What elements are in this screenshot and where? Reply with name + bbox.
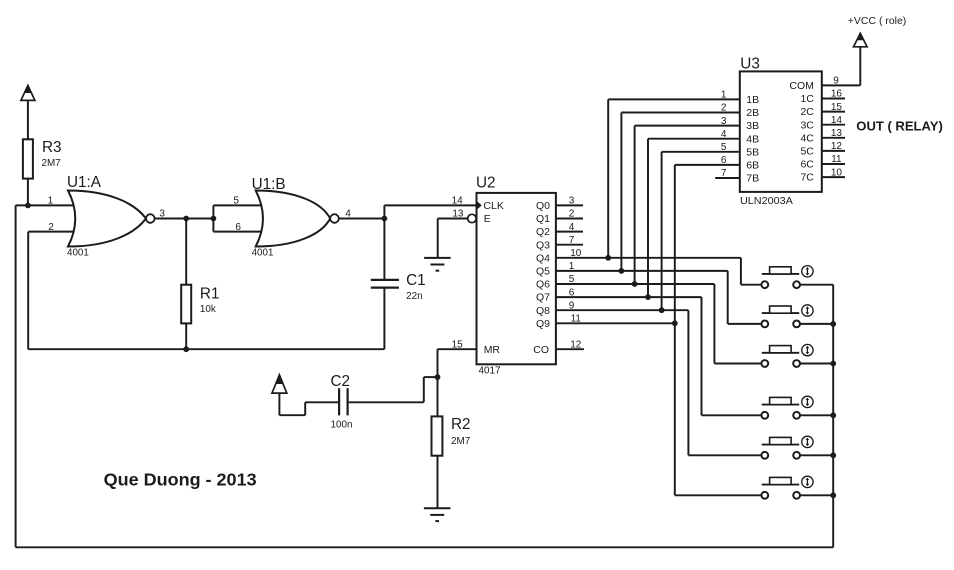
svg-text:4001: 4001 bbox=[252, 248, 274, 259]
svg-text:3C: 3C bbox=[800, 119, 814, 131]
svg-text:4001: 4001 bbox=[67, 247, 89, 258]
svg-text:6: 6 bbox=[235, 222, 241, 233]
svg-text:1B: 1B bbox=[746, 94, 759, 106]
svg-text:C1: C1 bbox=[406, 272, 426, 289]
svg-text:14: 14 bbox=[452, 196, 464, 207]
svg-text:Q3: Q3 bbox=[536, 239, 550, 251]
svg-text:2: 2 bbox=[48, 222, 54, 233]
svg-text:MR: MR bbox=[484, 344, 501, 356]
svg-text:100n: 100n bbox=[331, 419, 353, 430]
svg-text:5: 5 bbox=[721, 142, 727, 153]
svg-text:2: 2 bbox=[721, 103, 727, 114]
svg-text:ULN2003A: ULN2003A bbox=[740, 196, 793, 207]
svg-text:Q9: Q9 bbox=[536, 318, 550, 330]
svg-text:4B: 4B bbox=[746, 133, 759, 145]
svg-text:13: 13 bbox=[831, 128, 843, 139]
svg-text:E: E bbox=[484, 213, 491, 225]
svg-text:7: 7 bbox=[569, 235, 575, 246]
svg-text:Q2: Q2 bbox=[536, 226, 550, 238]
svg-text:2M7: 2M7 bbox=[42, 158, 61, 169]
svg-text:22n: 22n bbox=[406, 291, 422, 302]
svg-text:1: 1 bbox=[569, 261, 575, 272]
svg-text:Que Duong - 2013: Que Duong - 2013 bbox=[104, 470, 257, 490]
svg-text:10: 10 bbox=[831, 167, 843, 178]
svg-text:4: 4 bbox=[345, 209, 351, 220]
svg-text:9: 9 bbox=[569, 300, 575, 311]
svg-text:2M7: 2M7 bbox=[451, 436, 470, 447]
svg-text:Q8: Q8 bbox=[536, 305, 550, 317]
svg-text:2C: 2C bbox=[800, 106, 814, 118]
svg-text:6B: 6B bbox=[746, 160, 759, 172]
svg-text:3: 3 bbox=[569, 196, 575, 207]
svg-text:Q7: Q7 bbox=[536, 292, 550, 304]
svg-text:10k: 10k bbox=[200, 304, 216, 315]
svg-text:4: 4 bbox=[721, 129, 727, 140]
svg-text:R2: R2 bbox=[451, 416, 471, 433]
svg-text:16: 16 bbox=[831, 89, 843, 100]
svg-text:3: 3 bbox=[721, 116, 727, 127]
svg-text:11: 11 bbox=[831, 154, 842, 165]
svg-text:15: 15 bbox=[452, 339, 464, 350]
svg-text:12: 12 bbox=[570, 339, 582, 350]
svg-text:Q1: Q1 bbox=[536, 213, 550, 225]
svg-text:Q5: Q5 bbox=[536, 266, 550, 278]
svg-text:Q6: Q6 bbox=[536, 279, 550, 291]
svg-text:13: 13 bbox=[452, 209, 464, 220]
svg-text:6C: 6C bbox=[800, 159, 814, 171]
svg-text:3B: 3B bbox=[746, 120, 759, 132]
svg-text:CO: CO bbox=[533, 344, 549, 356]
svg-text:4C: 4C bbox=[800, 132, 814, 144]
svg-text:2: 2 bbox=[569, 209, 575, 220]
svg-text:4: 4 bbox=[569, 222, 575, 233]
svg-text:5B: 5B bbox=[746, 146, 759, 158]
svg-text:1C: 1C bbox=[800, 93, 814, 105]
svg-text:5: 5 bbox=[233, 196, 239, 207]
svg-text:5C: 5C bbox=[800, 146, 814, 158]
svg-text:+VCC ( role): +VCC ( role) bbox=[848, 15, 907, 27]
svg-text:14: 14 bbox=[831, 115, 843, 126]
svg-text:U3: U3 bbox=[740, 55, 760, 72]
svg-text:1: 1 bbox=[721, 90, 727, 101]
svg-text:COM: COM bbox=[789, 80, 814, 92]
svg-text:R3: R3 bbox=[42, 139, 62, 156]
svg-text:12: 12 bbox=[831, 141, 843, 152]
svg-text:7C: 7C bbox=[800, 172, 814, 184]
svg-text:11: 11 bbox=[571, 314, 582, 325]
svg-text:7: 7 bbox=[721, 168, 727, 179]
svg-text:U2: U2 bbox=[476, 175, 496, 192]
svg-text:9: 9 bbox=[833, 76, 839, 87]
svg-text:OUT ( RELAY): OUT ( RELAY) bbox=[856, 120, 943, 134]
svg-text:7B: 7B bbox=[746, 173, 759, 185]
svg-text:Q4: Q4 bbox=[536, 252, 550, 264]
svg-text:6: 6 bbox=[721, 155, 727, 166]
svg-text:Q0: Q0 bbox=[536, 200, 550, 212]
svg-text:U1:B: U1:B bbox=[252, 176, 286, 193]
svg-text:6: 6 bbox=[569, 287, 575, 298]
svg-text:1: 1 bbox=[48, 196, 54, 207]
svg-text:U1:A: U1:A bbox=[67, 174, 102, 191]
svg-text:2B: 2B bbox=[746, 107, 759, 119]
svg-text:5: 5 bbox=[569, 274, 575, 285]
svg-text:C2: C2 bbox=[331, 373, 351, 390]
svg-text:10: 10 bbox=[570, 248, 582, 259]
svg-text:R1: R1 bbox=[200, 286, 220, 303]
svg-text:CLK: CLK bbox=[483, 200, 503, 212]
svg-text:4017: 4017 bbox=[479, 366, 501, 377]
svg-text:15: 15 bbox=[831, 102, 843, 113]
svg-text:3: 3 bbox=[159, 209, 165, 220]
